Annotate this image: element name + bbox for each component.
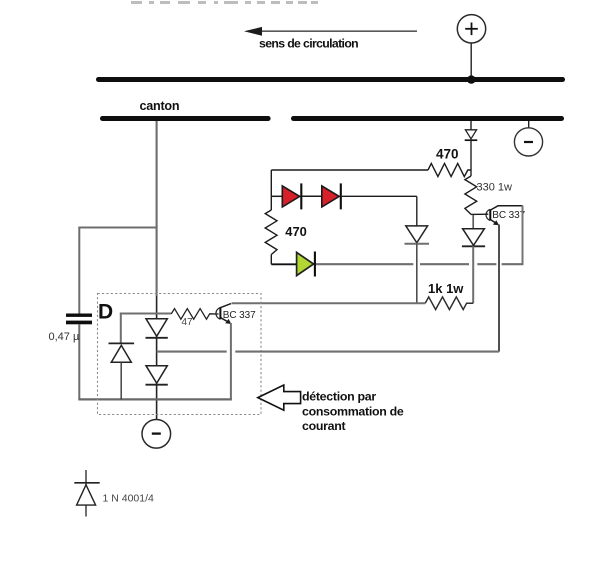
svg-text:0,47 µ: 0,47 µ xyxy=(49,331,80,343)
svg-text:1k 1w: 1k 1w xyxy=(428,281,464,296)
svg-text:BC 337: BC 337 xyxy=(492,210,525,221)
svg-text:détection par: détection par xyxy=(302,390,376,404)
svg-text:canton: canton xyxy=(140,99,180,113)
svg-text:330 1w: 330 1w xyxy=(477,182,513,194)
svg-text:sens de circulation: sens de circulation xyxy=(259,37,358,51)
svg-text:D: D xyxy=(98,301,113,324)
svg-text:470: 470 xyxy=(436,147,459,162)
svg-text:consommation de: consommation de xyxy=(302,404,404,418)
svg-text:47: 47 xyxy=(182,317,194,328)
svg-text:BC 337: BC 337 xyxy=(223,310,256,321)
svg-text:1 N 4001/4: 1 N 4001/4 xyxy=(103,493,155,505)
svg-text:470: 470 xyxy=(285,224,307,239)
svg-text:courant: courant xyxy=(302,419,346,433)
